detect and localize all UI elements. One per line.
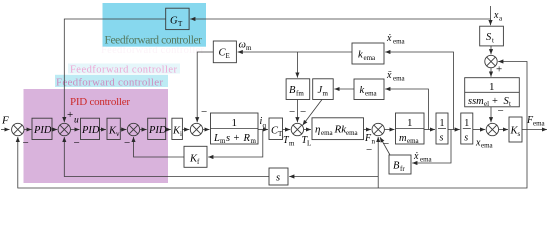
wire Jm diagonal to S5 [303, 100, 322, 126]
output force feedback: down from output line, across bottom, up into S1 [18, 130, 527, 188]
svg-text:ssm: ssm [468, 96, 484, 107]
motor electrical block 1/(Lms+Rm) [211, 113, 259, 145]
branch into s block [289, 176, 378, 178]
svg-text:Feedforward controller: Feedforward controller [70, 65, 178, 76]
svg-text:Feedforward controller: Feedforward controller [105, 35, 203, 47]
wire integrator1 to integrator2 [448, 129, 460, 131]
integrator 1 box 1/s [436, 113, 448, 144]
wire integrator2 to S7 [473, 129, 485, 131]
svg-text:1: 1 [464, 118, 469, 129]
svg-text:L: L [307, 140, 311, 148]
block Bfm [286, 79, 310, 100]
wire S8 to elastic block [490, 68, 492, 77]
wire S2 to PID2 [71, 129, 80, 131]
wire mass block to integrator 1 [424, 129, 435, 131]
svg-text:E: E [226, 52, 230, 60]
wire S6 to mass block [384, 129, 394, 131]
svg-text:PID: PID [33, 125, 52, 136]
gain Kf [184, 146, 207, 167]
svg-text:−: − [366, 144, 372, 156]
gain Ks [509, 117, 522, 142]
feedforward wire from xa tap to GT [190, 18, 490, 20]
svg-text:B: B [289, 85, 296, 96]
wire S7 to Ks [499, 129, 508, 131]
svg-text:i: i [180, 130, 182, 138]
summing junction S2 [58, 123, 70, 135]
svg-text:k: k [358, 50, 363, 61]
svg-text:t: t [492, 37, 494, 45]
svg-text:s: s [226, 133, 230, 144]
wire S4 to motor block [203, 129, 210, 131]
svg-text:+: + [496, 64, 502, 76]
svg-text:−: − [74, 137, 80, 149]
svg-text:−: − [300, 106, 306, 118]
svg-text:ema: ema [420, 156, 433, 164]
svg-text:ema: ema [365, 90, 378, 98]
svg-text:ema: ema [364, 54, 377, 62]
wire eta block to S6 [364, 129, 372, 131]
svg-text:ema: ema [393, 38, 406, 46]
velocity tap down to Bfr [412, 130, 451, 164]
block k_ema lower [354, 79, 384, 100]
svg-text:u: u [74, 116, 79, 126]
svg-text:t: t [509, 100, 511, 108]
svg-text:L: L [213, 133, 220, 144]
svg-text:fr: fr [400, 165, 405, 173]
wire PID1 to S2 [52, 129, 57, 131]
svg-text:−: − [124, 137, 130, 149]
wire PID2 to Kv [100, 129, 107, 131]
wire S1 to PID1 [24, 129, 32, 131]
svg-text:−: − [201, 106, 207, 118]
svg-text:ẋ: ẋ [413, 151, 419, 162]
svg-text:m: m [246, 44, 252, 52]
svg-text:m: m [251, 137, 257, 145]
summing junction S6 [372, 123, 384, 135]
derivative block s [269, 168, 288, 185]
svg-text:ẋ: ẋ [386, 33, 392, 44]
svg-text:ema: ema [393, 75, 406, 83]
wire elastic block to S7 [490, 107, 492, 123]
wire k_ema1 to CE with branch to Bfm [238, 51, 352, 53]
summing junction S1 [12, 123, 24, 135]
svg-text:m: m [399, 133, 407, 144]
svg-text:ema: ema [346, 129, 359, 137]
wire S3 to PID3 [140, 129, 147, 131]
wire CE output down to S4 [197, 52, 213, 122]
svg-text:el: el [484, 100, 489, 108]
wire S5 to eta block [304, 129, 311, 131]
svg-text:s: s [464, 133, 468, 144]
svg-text:s: s [276, 173, 280, 184]
svg-text:PID: PID [81, 125, 100, 136]
svg-text:F: F [1, 115, 9, 127]
input xa vertical [490, 6, 492, 25]
svg-text:s: s [440, 133, 444, 144]
svg-text:Feedforward controller: Feedforward controller [56, 77, 163, 89]
PID controller highlight box [24, 89, 169, 183]
svg-text:v: v [116, 130, 120, 138]
velocity tap up to k_ema1 [385, 52, 453, 130]
svg-text:−: − [383, 138, 389, 150]
block CE [213, 41, 236, 63]
svg-text:+: + [234, 133, 240, 144]
wire Bfr diagonal to S6 [380, 137, 390, 155]
wire Kv to S3 [120, 129, 126, 131]
elastic block 1/(ssm_el+St) [465, 78, 520, 108]
svg-text:Feedforward controller: Feedforward controller [101, 45, 205, 56]
svg-text:R: R [243, 133, 251, 144]
svg-text:fm: fm [296, 90, 304, 98]
summing junction S7 [486, 123, 498, 135]
svg-text:m: m [323, 90, 329, 98]
block GT [166, 8, 189, 29]
block Bfr [389, 155, 411, 174]
block k_ema upper [352, 43, 384, 64]
svg-text:ema: ema [407, 137, 420, 145]
PID box 2 [81, 118, 100, 139]
svg-text:+: + [67, 109, 73, 121]
svg-text:PID controller: PID controller [70, 96, 130, 108]
gain Ki [172, 118, 183, 139]
wire St to S8 [490, 46, 492, 54]
svg-text:ema: ema [533, 120, 546, 128]
summing junction S8 [485, 55, 497, 67]
current tap to Kf [208, 130, 263, 158]
svg-text:η: η [315, 124, 320, 136]
gearing block eta*R*k [312, 118, 364, 140]
svg-text:q: q [263, 122, 267, 130]
gain CT [269, 118, 283, 140]
mass block 1/m_ema [396, 113, 425, 145]
gain Kv [107, 118, 120, 139]
svg-text:1: 1 [407, 117, 413, 129]
svg-text:ẍ: ẍ [386, 70, 392, 81]
wire s block to S2 [64, 137, 269, 177]
wire CT to S5 [283, 129, 291, 131]
svg-text:ema: ema [321, 129, 334, 137]
ghost text row 2 background [55, 75, 168, 87]
branch bottom loop up into S6 [377, 137, 379, 188]
feedforward wire GT to S2 [64, 19, 165, 122]
feedforward controller highlight box [103, 3, 207, 47]
PID box 3 [148, 118, 166, 139]
wire F input arrow [1, 129, 10, 131]
wire k_ema2 to Jm [334, 88, 354, 90]
block St [480, 26, 504, 46]
wire PID3 to Ki [166, 129, 171, 131]
wire motor block to CT [258, 129, 268, 131]
summing junction S4 [190, 123, 202, 135]
svg-text:PID: PID [148, 125, 167, 136]
svg-text:−: − [23, 137, 29, 149]
svg-text:B: B [393, 161, 400, 172]
svg-text:G: G [170, 16, 178, 27]
svg-text:T: T [178, 20, 183, 28]
svg-text:k: k [360, 85, 365, 96]
svg-text:−: − [289, 106, 295, 118]
svg-text:1: 1 [232, 117, 238, 129]
integrator 2 box 1/s [461, 113, 473, 144]
summing junction S3 [127, 123, 139, 135]
wire Bfm down to S5 [296, 100, 298, 123]
svg-text:s: s [518, 130, 521, 138]
svg-text:m: m [289, 140, 295, 148]
summing junction S5 [291, 123, 303, 135]
svg-text:1: 1 [440, 118, 445, 129]
block Jm [313, 79, 334, 100]
acceleration tap up to k_ema2 [385, 89, 428, 130]
wire Kf to S3 [134, 137, 185, 157]
svg-text:+: + [492, 96, 498, 107]
svg-text:ema: ema [481, 142, 494, 150]
PID box 1 [32, 118, 52, 139]
svg-text:1: 1 [489, 81, 495, 93]
ghost text row 1 background [68, 64, 180, 74]
branch down to Bfm [296, 52, 298, 78]
wire F_ema feedback up into S8 [498, 62, 527, 131]
output wire F_ema [522, 129, 547, 131]
wire Ki to S4 [182, 129, 189, 131]
svg-text:ω: ω [239, 40, 246, 51]
